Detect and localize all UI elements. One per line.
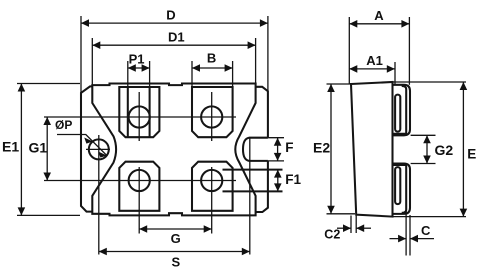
svg-text:S: S bbox=[171, 255, 180, 270]
svg-text:D1: D1 bbox=[168, 30, 185, 45]
svg-text:C2: C2 bbox=[324, 228, 340, 242]
svg-text:F1: F1 bbox=[285, 172, 301, 187]
svg-text:P1: P1 bbox=[129, 51, 145, 66]
svg-text:B: B bbox=[207, 51, 216, 66]
svg-text:C: C bbox=[421, 223, 431, 238]
svg-text:G1: G1 bbox=[29, 140, 48, 156]
svg-text:F: F bbox=[285, 140, 293, 155]
svg-text:A: A bbox=[374, 8, 384, 23]
svg-text:E1: E1 bbox=[2, 139, 19, 155]
svg-text:E: E bbox=[467, 146, 476, 161]
svg-text:ØP: ØP bbox=[55, 118, 72, 132]
svg-text:D: D bbox=[166, 7, 175, 22]
svg-text:G2: G2 bbox=[435, 142, 454, 158]
svg-text:A1: A1 bbox=[366, 53, 383, 68]
svg-text:G: G bbox=[171, 231, 181, 246]
svg-text:E2: E2 bbox=[313, 140, 330, 156]
